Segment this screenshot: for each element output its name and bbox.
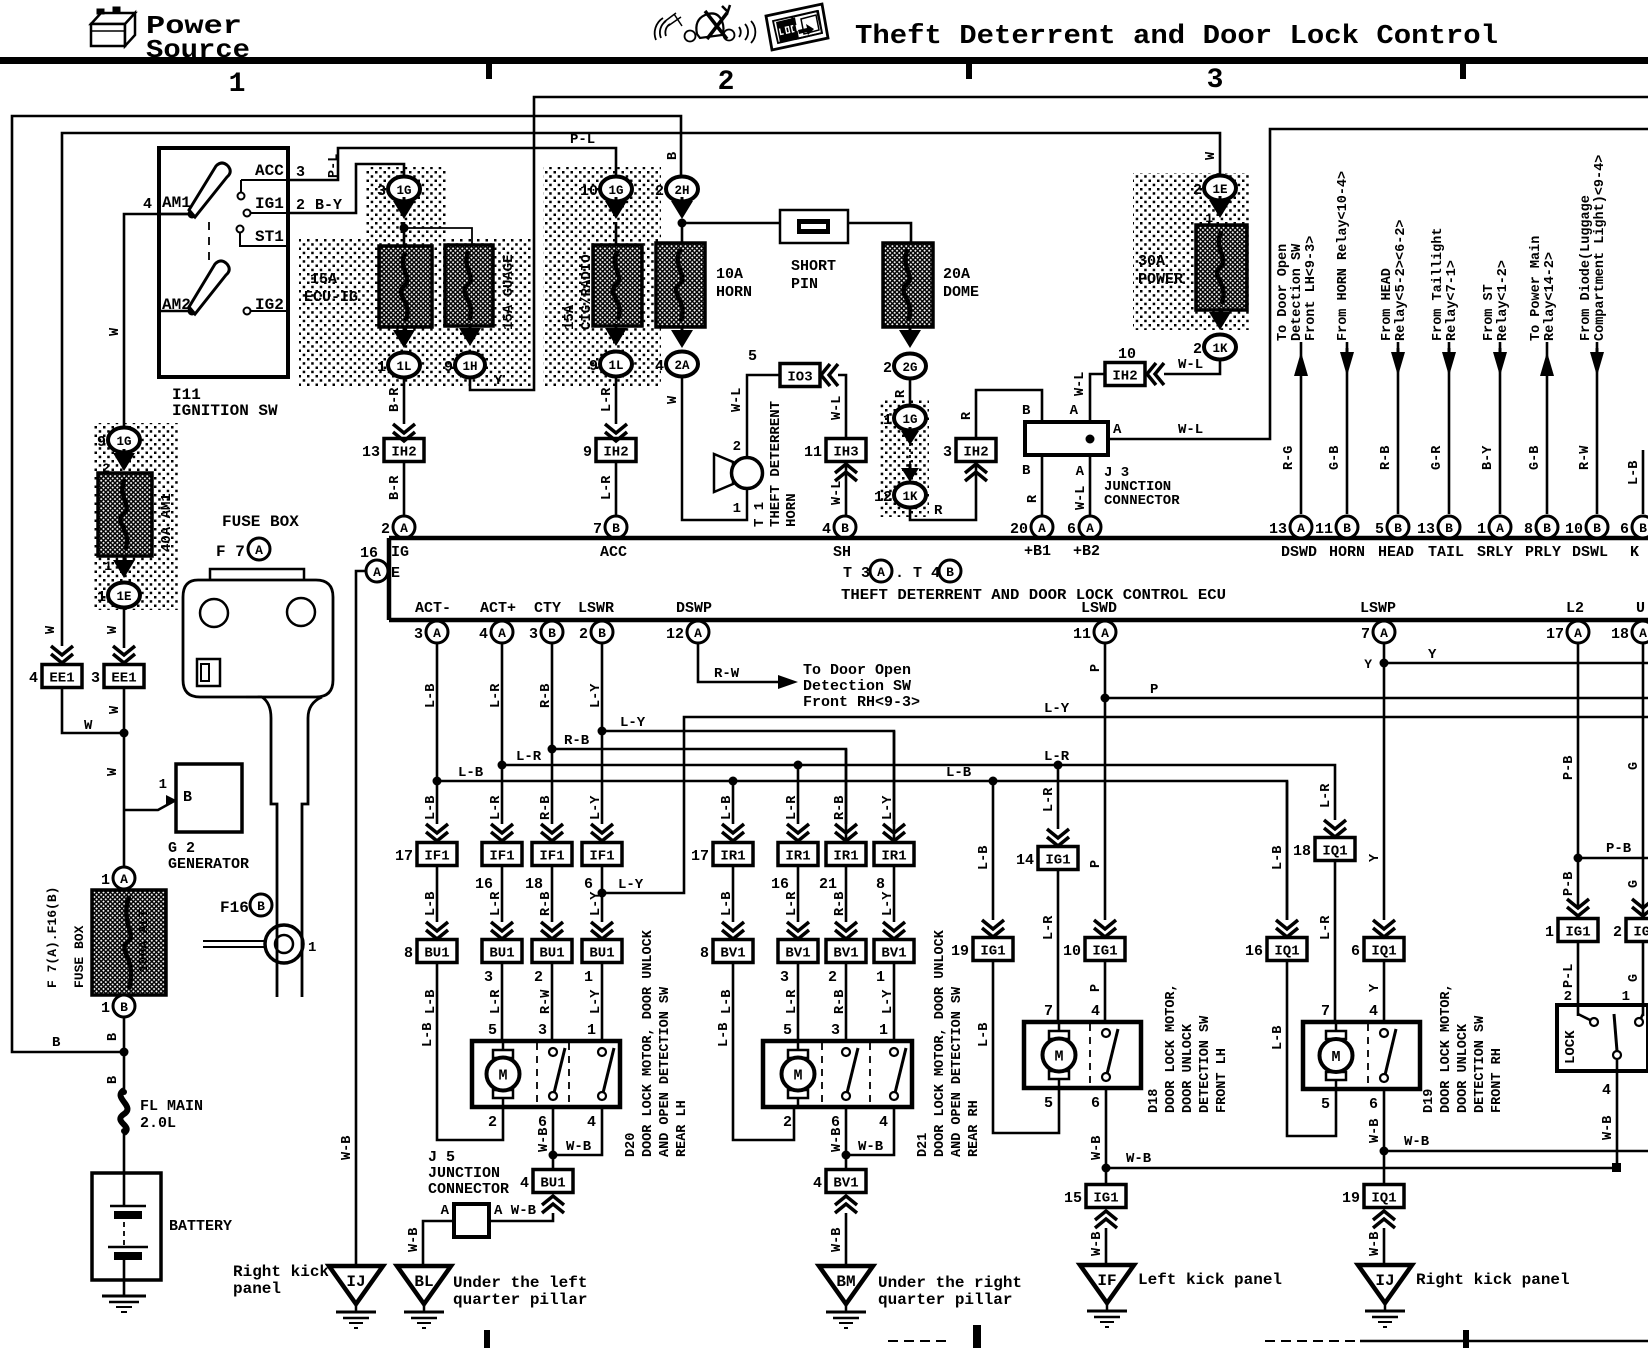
svg-text:5: 5 (488, 1022, 497, 1039)
svg-text:13: 13 (362, 444, 380, 461)
svg-text:Compartment Light)<9-4>: Compartment Light)<9-4> (1593, 155, 1608, 341)
chevron up into IH2 (965, 472, 987, 481)
svg-text:Front LH<9-3>: Front LH<9-3> (1304, 236, 1319, 341)
svg-text:M: M (793, 1068, 802, 1085)
ignition IG2 contact (244, 308, 251, 315)
svg-text:B: B (1445, 521, 1453, 536)
wire W to EE1 (123, 607, 126, 648)
svg-text:IG1: IG1 (255, 195, 284, 213)
wire L-R chevron to IH2 (615, 377, 618, 424)
fuse box connector holes (200, 599, 228, 627)
svg-text:4: 4 (879, 1114, 888, 1131)
door lock motor D20 box (472, 1041, 620, 1107)
svg-text:18: 18 (1611, 626, 1629, 643)
svg-text:1E: 1E (1212, 183, 1227, 197)
chevron into 2 IG1 (1632, 899, 1648, 908)
wire L-R to D18 pin7 (1057, 869, 1060, 1022)
svg-text:17: 17 (691, 848, 709, 865)
wire W-B from LOCK pin4 (1616, 1059, 1619, 1168)
svg-text:A: A (1574, 626, 1582, 641)
svg-text:B: B (257, 899, 265, 914)
wire W-B line to LOCK ECU (1106, 1167, 1616, 1170)
svg-text:1H: 1H (462, 360, 477, 374)
ECU bottom bus (389, 618, 1648, 623)
svg-text:W: W (108, 327, 123, 336)
svg-text:P-B: P-B (1606, 841, 1632, 857)
svg-text:B-Y: B-Y (315, 197, 342, 214)
svg-text:IQ1: IQ1 (1322, 844, 1347, 860)
ground IJ right (1358, 1265, 1412, 1303)
svg-text:FL MAIN: FL MAIN (140, 1098, 203, 1115)
svg-text:LSWD: LSWD (1081, 600, 1117, 617)
svg-text:R-W: R-W (714, 666, 740, 682)
stipple shade around fuse 15A CIG/RADIO (543, 167, 661, 387)
svg-text:R-B: R-B (564, 733, 590, 749)
title bar (0, 57, 1648, 64)
svg-text:IG1: IG1 (1633, 925, 1648, 941)
wire Y to D19 pin4 (1383, 960, 1386, 1022)
svg-text:30A: 30A (1138, 253, 1165, 270)
wire R-B ECU to IF1 x=552 (551, 643, 554, 824)
svg-text:12: 12 (666, 626, 684, 643)
svg-text:4: 4 (29, 670, 38, 687)
svg-text:+B1: +B1 (1024, 543, 1051, 560)
svg-text:D19: D19 (1422, 1089, 1437, 1113)
svg-text:G-B: G-B (1328, 446, 1343, 470)
wire L-B IF1 to BU1 x=437 (436, 865, 439, 922)
wire B down (123, 1017, 126, 1090)
wire W-B to ground IJ right (1383, 1228, 1386, 1265)
svg-text:DOOR LOCK MOTOR,: DOOR LOCK MOTOR, (1439, 983, 1454, 1113)
svg-text:6: 6 (584, 876, 593, 893)
svg-text:L-Y: L-Y (589, 683, 604, 708)
svg-text:W: W (106, 625, 121, 634)
arrow to 2A (671, 330, 693, 348)
wire R up to J3 (976, 390, 1042, 439)
svg-text:3: 3 (780, 969, 789, 986)
svg-text:L-R: L-R (1042, 787, 1057, 812)
svg-text:1: 1 (584, 969, 593, 986)
wire W-B from D20 pin6 (552, 1107, 555, 1169)
svg-text:IH2: IH2 (603, 445, 628, 461)
wire L-R IR1 to BV1 x=798 (797, 865, 800, 922)
wire L-Y IR1 to BV1 x=894 (893, 865, 896, 922)
svg-text:F 7(A).F16(B): F 7(A).F16(B) (45, 887, 60, 988)
svg-text:B-R: B-R (388, 475, 403, 500)
solid arrow into fuse (113, 453, 135, 471)
svg-text:Relay<14-2>: Relay<14-2> (1543, 252, 1558, 341)
svg-text:W-B: W-B (1090, 1232, 1105, 1256)
svg-text:BL: BL (414, 1273, 433, 1291)
svg-text:P-L: P-L (327, 154, 342, 178)
svg-text:10: 10 (1565, 521, 1583, 538)
svg-text:B-R: B-R (388, 387, 403, 412)
svg-text:. T 4: . T 4 (895, 565, 940, 582)
svg-text:15A: 15A (562, 304, 578, 330)
svg-text:IQ1: IQ1 (1371, 944, 1396, 960)
svg-text:L-R: L-R (1319, 783, 1334, 808)
svg-text:W: W (84, 718, 93, 734)
svg-text:DETECTION SW: DETECTION SW (1198, 1015, 1213, 1113)
ECU left edge (387, 538, 392, 620)
svg-text:P: P (1089, 984, 1104, 992)
svg-text:20A: 20A (943, 266, 970, 283)
wire P LSWD to 10 IG1 (1104, 643, 1107, 920)
svg-text:A: A (1038, 521, 1046, 536)
svg-text:2: 2 (655, 183, 664, 200)
lock icon (766, 4, 828, 50)
svg-text:2: 2 (783, 1114, 792, 1131)
wire L-B ECU to IF1 x=437 (436, 643, 439, 824)
svg-text:15A: 15A (310, 271, 337, 288)
svg-text:A: A (1297, 521, 1305, 536)
wire L-Y IF1 to BU1 x=602 (601, 865, 604, 922)
svg-text:3: 3 (484, 969, 493, 986)
svg-text:DOOR UNLOCK: DOOR UNLOCK (1181, 1023, 1196, 1113)
svg-text:3: 3 (1207, 65, 1224, 96)
svg-text:R: R (934, 503, 943, 519)
svg-text:P-L: P-L (1562, 964, 1577, 988)
svg-text:16: 16 (1245, 943, 1263, 960)
junction BV1 x=798 (778, 940, 818, 963)
svg-text:L-R: L-R (489, 683, 504, 708)
wire P to D18 pin4 (1104, 960, 1107, 1022)
section tick 1-2 (486, 64, 492, 79)
svg-text:BM: BM (836, 1273, 855, 1291)
svg-text:SH: SH (833, 544, 851, 561)
wire W-B from D19 pin6 (1383, 1089, 1386, 1185)
wire L-Y LSWR branch (602, 731, 894, 843)
svg-text:1G: 1G (902, 413, 917, 427)
svg-text:6: 6 (1620, 521, 1629, 538)
svg-text:AND OPEN DETECTION SW: AND OPEN DETECTION SW (950, 986, 965, 1157)
wire BV1-4 to D21 pin1 (893, 962, 896, 1041)
svg-text:L-R: L-R (785, 795, 800, 820)
svg-text:6: 6 (1091, 1095, 1100, 1112)
svg-text:DSWD: DSWD (1281, 544, 1317, 561)
stipple shade around fuse 40A AM1 (93, 423, 179, 610)
svg-text:IF: IF (1097, 1272, 1116, 1290)
svg-text:A: A (1380, 626, 1388, 641)
wire BU1-1 to D20 pin2 (437, 962, 503, 1140)
svg-text:A: A (1086, 521, 1094, 536)
svg-text:12: 12 (874, 489, 892, 506)
wire W-B from D18 pin6 (1105, 1088, 1108, 1185)
svg-text:W: W (1204, 151, 1219, 160)
svg-text:1E: 1E (116, 590, 131, 604)
chevron into EE1 right (113, 646, 135, 655)
svg-text:1: 1 (1545, 924, 1554, 941)
svg-text:REAR RH: REAR RH (967, 1100, 982, 1157)
wire to relay From HEAD (1397, 342, 1400, 514)
svg-text:Y: Y (1368, 983, 1383, 992)
section tick 3-4 (1460, 64, 1466, 79)
svg-text:L-R: L-R (1319, 915, 1334, 940)
svg-text:1: 1 (159, 777, 167, 793)
svg-text:HORN: HORN (784, 493, 800, 527)
arrow to 1H (459, 328, 481, 346)
wire R-B IF1 to BU1 x=552 (551, 865, 554, 922)
svg-text:BV1: BV1 (833, 946, 858, 962)
wire W net frame (62, 133, 1220, 646)
wire A W-L down to +B2 (1089, 455, 1092, 516)
svg-text:L-Y: L-Y (618, 877, 644, 893)
svg-text:W: W (106, 767, 121, 776)
svg-text:13: 13 (1417, 521, 1435, 538)
svg-text:Front RH<9-3>: Front RH<9-3> (803, 694, 920, 711)
junction IR1 x=846 (826, 843, 866, 866)
svg-text:Y: Y (494, 373, 503, 389)
svg-text:4: 4 (1602, 1082, 1611, 1099)
svg-text:1: 1 (229, 69, 246, 100)
wire L-R to 14 IG1 (1054, 761, 1063, 770)
svg-text:Y: Y (1428, 647, 1437, 663)
svg-text:5: 5 (783, 1022, 792, 1039)
svg-text:Relay<7-1>: Relay<7-1> (1445, 260, 1460, 341)
svg-text:4: 4 (479, 626, 488, 643)
junction IF1 x=552 (532, 843, 572, 866)
svg-text:17: 17 (395, 848, 413, 865)
svg-text:P-B: P-B (1562, 872, 1577, 896)
svg-text:DSWL: DSWL (1572, 544, 1608, 561)
svg-text:2A: 2A (674, 359, 690, 373)
svg-text:To Door Open: To Door Open (803, 662, 911, 679)
svg-text:B: B (946, 565, 954, 580)
svg-text:SRLY: SRLY (1477, 544, 1513, 561)
svg-text:W-B: W-B (407, 1228, 422, 1252)
battery box (92, 1173, 161, 1280)
svg-text:LSWP: LSWP (1360, 600, 1396, 617)
svg-text:W-B: W-B (1368, 1232, 1383, 1256)
wire L-B to 16 IQ1 (1286, 781, 1289, 920)
svg-text:B: B (183, 789, 192, 806)
svg-text:L-R: L-R (600, 475, 615, 500)
wire R-B CTY branch (552, 749, 846, 843)
junction dot branch to guage fuse (400, 224, 409, 233)
svg-text:R-B: R-B (539, 796, 554, 820)
svg-text:From Taillight: From Taillight (1431, 228, 1446, 341)
svg-text:IO3: IO3 (787, 370, 812, 386)
svg-text:DOOR LOCK MOTOR,: DOOR LOCK MOTOR, (1164, 983, 1179, 1113)
svg-text:3: 3 (943, 444, 952, 461)
svg-text:W-B: W-B (537, 1128, 552, 1152)
svg-text:2H: 2H (674, 184, 689, 198)
svg-text:2: 2 (1564, 989, 1572, 1005)
svg-text:1: 1 (104, 559, 112, 574)
ignition AM1 pole and lever (159, 213, 189, 216)
svg-text:A: A (498, 626, 506, 641)
wire to relay From Taillight (1448, 342, 1451, 514)
svg-text:19: 19 (951, 943, 969, 960)
svg-text:IR1: IR1 (785, 849, 810, 865)
ignition lever dashed link (208, 222, 210, 264)
arrow into fuse (393, 201, 415, 219)
svg-text:EE1: EE1 (49, 671, 74, 687)
svg-text:DOOR LOCK MOTOR, DOOR UNLOCK: DOOR LOCK MOTOR, DOOR UNLOCK (933, 929, 948, 1157)
fuse box 100A ALT (92, 890, 166, 995)
svg-text:L-B: L-B (977, 1023, 992, 1047)
stipple shade around fuses 15A ECU-IG / 15A GUAGE (299, 238, 531, 387)
chevron into EE1 left (51, 646, 73, 655)
wire W-B from D21 pin6 (845, 1107, 848, 1169)
svg-text:1K: 1K (1212, 342, 1228, 356)
svg-text:L-R: L-R (600, 387, 615, 412)
svg-text:quarter pillar: quarter pillar (878, 1291, 1012, 1309)
svg-text:1G: 1G (116, 435, 131, 449)
svg-text:W-B: W-B (830, 1228, 845, 1252)
svg-text:To Door Open: To Door Open (1276, 244, 1291, 341)
wire short pin to dome fuse (848, 223, 911, 243)
svg-text:1L: 1L (608, 359, 623, 373)
svg-text:GENERATOR: GENERATOR (168, 856, 249, 873)
svg-text:R: R (960, 411, 975, 420)
svg-text:B: B (612, 521, 620, 536)
svg-text:L-B: L-B (717, 1023, 732, 1047)
svg-text:10A: 10A (716, 266, 743, 283)
svg-text:IF1: IF1 (539, 849, 564, 865)
svg-text:ACT-: ACT- (415, 600, 451, 617)
svg-text:D21: D21 (916, 1133, 931, 1157)
svg-text:11: 11 (1315, 521, 1333, 538)
wire L-R to IR1 x=798 (794, 761, 803, 770)
svg-text:REAR LH: REAR LH (675, 1100, 690, 1157)
wire Y net from fuse 1H to right edge (470, 97, 1648, 390)
svg-text:7: 7 (1361, 626, 1370, 643)
svg-text:1: 1 (377, 359, 386, 376)
svg-text:R-B: R-B (539, 684, 554, 708)
svg-text:A W-B: A W-B (494, 1203, 537, 1219)
chevron up below 15 IG1 (1095, 1219, 1117, 1228)
junction BU1 x=602 (582, 940, 622, 963)
svg-text:2: 2 (534, 969, 543, 986)
wire W-B to ground IF (1105, 1228, 1108, 1265)
svg-text:P-L: P-L (570, 132, 595, 148)
fuse 20A DOME (883, 243, 933, 327)
solid arrow to 1E (113, 560, 135, 578)
svg-text:2: 2 (828, 969, 837, 986)
svg-text:40A AM1: 40A AM1 (159, 493, 175, 552)
svg-text:1: 1 (101, 872, 110, 889)
wire L-R ECU to IF1 x=502 (501, 643, 504, 824)
svg-text:11: 11 (1073, 626, 1091, 643)
svg-text:B: B (841, 521, 849, 536)
wire G right edge (1642, 643, 1645, 918)
svg-text:5: 5 (1375, 521, 1384, 538)
arrow into fuse (605, 201, 627, 219)
svg-text:A: A (877, 565, 885, 580)
inline connector arrows 1G-1K (901, 431, 919, 445)
svg-text:L-B: L-B (720, 796, 735, 820)
arrow to 1L (393, 330, 415, 348)
svg-text:POWER: POWER (1138, 271, 1183, 288)
svg-text:B: B (548, 626, 556, 641)
svg-text:B-Y: B-Y (1481, 445, 1496, 470)
svg-text:L-B: L-B (1627, 461, 1642, 485)
bottom border tick 2 (973, 1325, 981, 1348)
svg-text:A: A (1113, 422, 1122, 438)
svg-text:2: 2 (883, 360, 892, 377)
svg-text:L-R: L-R (489, 795, 504, 820)
svg-text:W: W (108, 705, 123, 714)
svg-text:4: 4 (143, 196, 152, 213)
wire L-Y main cross (602, 717, 1648, 893)
svg-text:1K: 1K (902, 490, 918, 504)
svg-text:A: A (255, 543, 263, 558)
svg-text:L-Y: L-Y (881, 891, 896, 916)
svg-text:FRONT RH: FRONT RH (1490, 1048, 1505, 1113)
svg-text:A: A (1101, 626, 1109, 641)
arrow to 1L (605, 328, 627, 346)
svg-text:From HORN Relay<10-4>: From HORN Relay<10-4> (1336, 171, 1351, 341)
svg-text:1: 1 (1622, 989, 1630, 1005)
svg-text:1L: 1L (396, 360, 411, 374)
svg-text:W-B: W-B (566, 1139, 592, 1155)
svg-text:IJ: IJ (1375, 1272, 1394, 1290)
svg-text:ACT+: ACT+ (480, 600, 516, 617)
svg-text:L-B: L-B (1271, 1026, 1286, 1050)
svg-text:B: B (1394, 521, 1402, 536)
junction BU1 x=502 (482, 940, 522, 963)
svg-text:EE1: EE1 (111, 671, 136, 687)
svg-text:3: 3 (529, 626, 538, 643)
svg-text:L-B: L-B (458, 765, 484, 781)
svg-text:THEFT DETERRENT AND DOOR LOCK: THEFT DETERRENT AND DOOR LOCK CONTROL EC… (841, 587, 1226, 604)
wire to relay To Power Main (1546, 342, 1549, 514)
wire W-B from D21 pin4 (846, 1107, 894, 1155)
svg-text:L-R: L-R (489, 891, 504, 916)
wire K pin L-B (1642, 450, 1645, 514)
svg-text:11: 11 (804, 444, 822, 461)
svg-text:21: 21 (819, 876, 837, 893)
svg-text:B: B (120, 1000, 128, 1015)
svg-text:L-R: L-R (516, 749, 542, 765)
wire W-L net frame right (1108, 129, 1648, 439)
svg-text:G 2: G 2 (168, 840, 195, 857)
svg-text:L-B: L-B (977, 846, 992, 870)
svg-text:Theft Deterrent and Door Lock: Theft Deterrent and Door Lock Control (855, 22, 1498, 52)
svg-text:1: 1 (1477, 521, 1486, 538)
bottom border tick 1 (484, 1330, 490, 1348)
svg-text:G: G (1627, 974, 1642, 982)
svg-text:DOOR UNLOCK: DOOR UNLOCK (1456, 1023, 1471, 1113)
svg-text:DETECTION SW: DETECTION SW (1473, 1015, 1488, 1113)
svg-text:9: 9 (589, 358, 598, 375)
svg-text:2: 2 (579, 626, 588, 643)
wire W-L down to SH (838, 375, 846, 439)
svg-text:4: 4 (813, 1175, 822, 1192)
wire W-L from 1K power to IH2 (1164, 359, 1220, 374)
svg-text:TAIL: TAIL (1428, 544, 1464, 561)
ground BL (397, 1266, 451, 1304)
chevron up below BV1 (835, 1204, 857, 1213)
svg-text:Y: Y (1368, 853, 1383, 862)
svg-text:R-B: R-B (833, 892, 848, 916)
fuse box connector outline (210, 569, 304, 580)
svg-text:U: U (1636, 600, 1645, 617)
wire L-R IF1 to BU1 x=502 (501, 865, 504, 922)
svg-text:LSWR: LSWR (578, 600, 614, 617)
svg-text:10: 10 (1063, 943, 1081, 960)
svg-text:R: R (1026, 494, 1041, 503)
svg-text:3: 3 (538, 1022, 547, 1039)
svg-text:A: A (694, 626, 702, 641)
ring terminal (265, 925, 303, 963)
svg-text:18: 18 (525, 876, 543, 893)
svg-text:1G: 1G (608, 184, 623, 198)
svg-text:2: 2 (1613, 924, 1622, 941)
svg-text:2: 2 (381, 521, 390, 538)
svg-text:P: P (1150, 682, 1158, 698)
